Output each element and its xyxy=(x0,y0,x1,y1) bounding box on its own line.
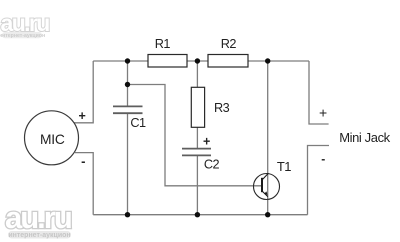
svg-text:+: + xyxy=(203,134,210,148)
svg-text:T1: T1 xyxy=(277,159,291,174)
svg-text:интернет-аукцион: интернет-аукцион xyxy=(8,232,70,239)
watermark au.ru bottom left xyxy=(5,200,71,239)
wire jack minus lead xyxy=(308,146,330,215)
junction node C1 base branch xyxy=(125,82,130,87)
watermark au.ru top left xyxy=(0,10,49,39)
svg-text:au.ru: au.ru xyxy=(5,200,71,235)
capacitor C2 polarized xyxy=(182,134,220,171)
wire base branch xyxy=(128,85,263,186)
junction node top rail collector xyxy=(265,58,270,63)
wire top rail xyxy=(93,60,309,62)
svg-text:+: + xyxy=(319,105,327,121)
wire MIC plus lead xyxy=(73,61,93,123)
svg-text:C2: C2 xyxy=(204,158,220,172)
wire MIC minus lead xyxy=(75,153,93,215)
svg-text:-: - xyxy=(81,154,85,169)
svg-text:R1: R1 xyxy=(155,37,171,51)
wire jack plus lead xyxy=(309,61,329,124)
junction node bottom rail C2 xyxy=(195,212,200,217)
junction node top rail R3 xyxy=(195,58,200,63)
resistor R3 xyxy=(191,87,229,127)
wire C1 branch vertical xyxy=(127,61,129,215)
svg-text:+: + xyxy=(78,109,85,123)
junction node bottom rail C1 xyxy=(125,212,130,217)
junction node bottom rail emitter xyxy=(265,212,270,217)
wire bottom rail xyxy=(93,214,307,216)
capacitor C1 xyxy=(113,106,146,129)
svg-text:R3: R3 xyxy=(214,101,230,115)
svg-text:-: - xyxy=(321,152,325,166)
wire R3 C2 branch xyxy=(196,61,198,215)
svg-text:R2: R2 xyxy=(221,37,237,51)
svg-text:интернет-аукцион: интернет-аукцион xyxy=(0,33,45,39)
resistor R2 xyxy=(208,37,248,67)
junction node top rail C1 xyxy=(125,58,130,63)
microphone MIC xyxy=(25,111,79,165)
svg-text:C1: C1 xyxy=(130,116,146,130)
resistor R1 xyxy=(148,37,187,67)
wire collector emitter vertical xyxy=(267,61,269,215)
svg-text:MIC: MIC xyxy=(40,132,65,147)
svg-text:Mini Jack: Mini Jack xyxy=(339,130,390,145)
svg-text:au.ru: au.ru xyxy=(1,10,50,36)
transistor T1 xyxy=(254,159,292,200)
